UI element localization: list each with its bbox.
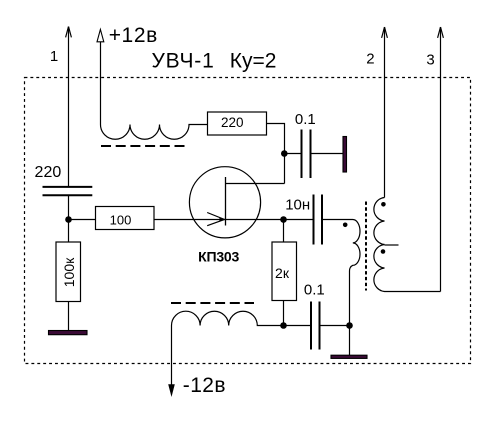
svg-text:220: 220 (35, 164, 62, 181)
ground (vertical bar) (343, 137, 347, 173)
node D junction (280, 322, 287, 329)
svg-text:+12в: +12в (109, 24, 158, 47)
transformer secondary winding (top half) (374, 198, 385, 245)
svg-text:УВЧ-1: УВЧ-1 (152, 49, 215, 72)
ground G3 (331, 355, 367, 358)
wire node E to ground (349, 326, 351, 356)
node E junction (346, 322, 353, 329)
transistor drain wire (226, 183, 285, 185)
inductor L1 core (101, 145, 185, 147)
wire node A to cap (285, 153, 302, 155)
svg-text:0.1: 0.1 (295, 111, 316, 128)
svg-text:2: 2 (366, 51, 374, 68)
svg-text:Ку=2: Ку=2 (230, 49, 277, 72)
resistor 100k (68, 220, 70, 243)
svg-text:10н: 10н (285, 197, 310, 214)
inductor L1 (top choke) (101, 42, 208, 139)
capacitor 0.1 (bottom) (311, 302, 320, 350)
svg-text:0.1: 0.1 (304, 282, 325, 299)
transformer secondary dot (top) (381, 202, 386, 207)
transistor Q1 KP303 circle (189, 167, 260, 238)
dashed enclosure border (25, 78, 471, 364)
resistor 2k (283, 220, 285, 243)
transformer core (365, 202, 367, 291)
transformer primary polarity dot (343, 223, 348, 228)
inductor L2 (bottom choke) (172, 311, 312, 386)
svg-text:100к: 100к (61, 257, 77, 287)
-12v power arrow (168, 384, 175, 397)
+12v power arrow (97, 29, 104, 41)
svg-text:КП303: КП303 (198, 249, 239, 265)
transformer center tap (385, 244, 399, 246)
wire resistor to drain node (267, 124, 285, 184)
resistor 220 (drain) (208, 112, 267, 135)
transformer secondary winding (bottom half) (374, 245, 441, 292)
node C junction (source node) (280, 216, 287, 223)
capacitor 220 (input) (43, 187, 93, 195)
transformer secondary dot (bottom) (381, 249, 386, 254)
svg-text:100: 100 (110, 212, 132, 227)
svg-text:220: 220 (221, 115, 244, 130)
svg-text:1: 1 (50, 48, 58, 65)
node B junction (65, 216, 72, 223)
wire cap to ground bar (311, 153, 344, 155)
capacitor 10n (314, 195, 323, 245)
node 1 wire (66, 27, 72, 188)
ground G2 (49, 331, 88, 335)
wire cap to node E (320, 325, 350, 327)
svg-text:2к: 2к (275, 265, 290, 281)
svg-text:-12в: -12в (183, 374, 226, 397)
node 3 wire (438, 27, 444, 292)
inductor L2 core (171, 302, 254, 304)
node 2 wire (382, 27, 388, 198)
svg-text:3: 3 (426, 51, 434, 68)
node A junction (281, 150, 288, 157)
transistor gate arrow (207, 213, 224, 226)
capacitor 0.1 (top) (302, 130, 311, 179)
main rail wire (gate/source row) (154, 219, 314, 221)
transistor channel (225, 177, 227, 226)
transformer T1 primary winding (322, 220, 360, 326)
resistor 100 (gate) (96, 207, 155, 230)
